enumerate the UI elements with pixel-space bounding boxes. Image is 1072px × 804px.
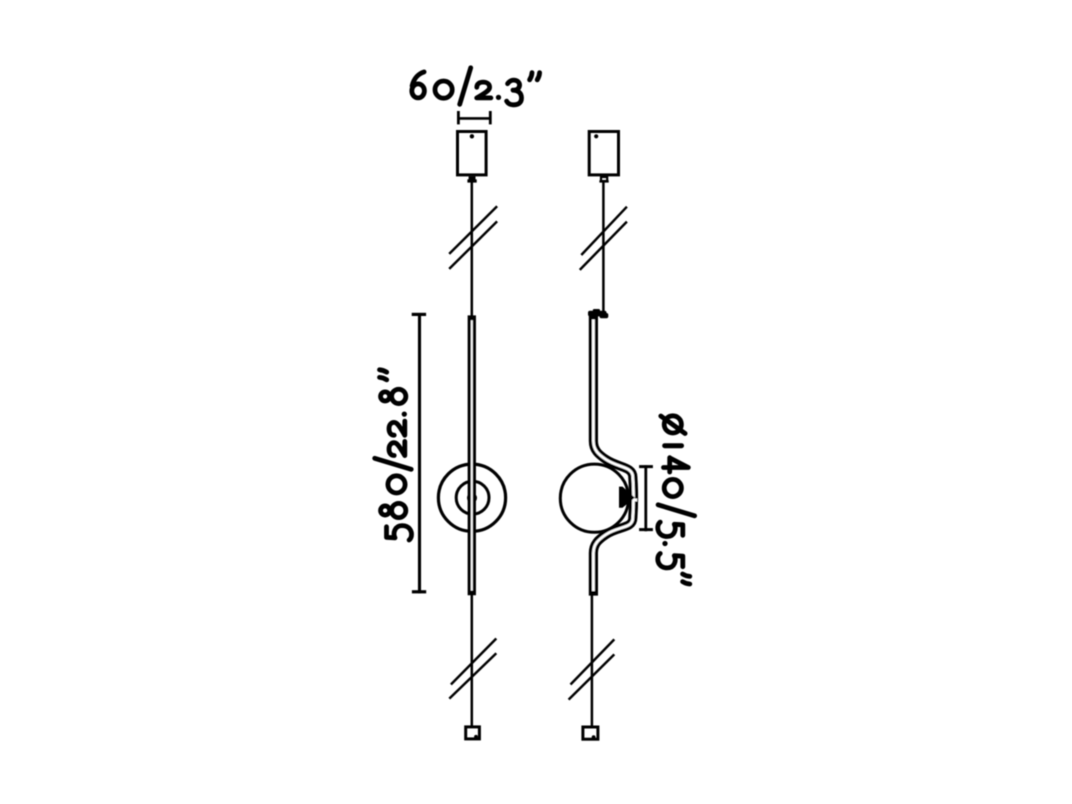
canopy stub left (467, 176, 476, 182)
dim line 140 diameter (639, 465, 653, 531)
wire lower left (471, 595, 474, 726)
sphere right (560, 464, 628, 532)
canopy screw dot left (470, 134, 474, 138)
break mark upper right (580, 207, 627, 270)
break mark lower left (449, 639, 496, 699)
inner ring left (456, 481, 489, 514)
arm outer-line nick (634, 499, 637, 502)
outer ring left (438, 464, 505, 531)
end stop square right (583, 727, 598, 739)
dim line 60 width (458, 111, 490, 124)
sphere centre dot left (467, 493, 477, 503)
arm tube right (wraps sphere) (593, 314, 633, 596)
sphere holder wedge (619, 487, 635, 508)
tube left (rod) (468, 315, 476, 595)
canopy left (458, 132, 487, 175)
dim line 580 height (412, 313, 427, 593)
canopy stub right (601, 177, 607, 181)
wire upper right (602, 182, 605, 317)
canopy right (589, 132, 618, 175)
break mark lower right (569, 639, 615, 699)
end stop dot right (592, 735, 596, 739)
dim label 580/22.8" left rotated (375, 370, 412, 540)
tube top cap right (588, 309, 608, 318)
dim label Ø140/5.5" right rotated (658, 416, 695, 584)
end stop dot left (474, 735, 478, 739)
wire upper left (471, 182, 474, 316)
dim label 60/2.3" top (412, 68, 540, 105)
end stop square left (466, 727, 480, 739)
break mark upper left (449, 206, 497, 269)
wire lower right (591, 595, 594, 726)
canopy screw dot right (594, 134, 598, 138)
